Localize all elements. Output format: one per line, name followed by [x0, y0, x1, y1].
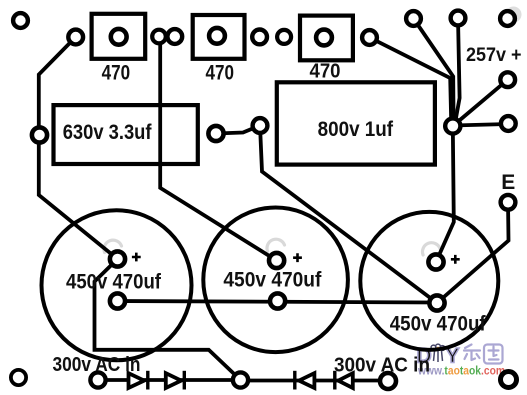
plus sign C2: [293, 253, 302, 262]
svg-text:450v 470uf: 450v 470uf: [390, 313, 487, 336]
wire node PC to C3 plus pad: [436, 126, 454, 262]
wire P16 to P17: [98, 378, 241, 382]
C3 plus pad: [428, 254, 443, 269]
C2 minus pad: [270, 293, 285, 308]
svg-text:257v +: 257v +: [466, 45, 522, 66]
pad P9: [277, 30, 291, 44]
pad P3: [152, 30, 166, 44]
svg-text:800v 1uf: 800v 1uf: [318, 118, 394, 141]
svg-text:E: E: [501, 171, 515, 194]
pad P18: [380, 373, 396, 389]
wire P7 to C3 minus pad: [260, 126, 437, 304]
pad P4: [167, 29, 182, 44]
electrolytic capacitor C1 outline: [42, 210, 192, 360]
svg-text:470: 470: [102, 62, 131, 85]
C1 plus pad: [110, 251, 125, 266]
pad P16: [90, 372, 105, 387]
plus sign C3: [451, 255, 460, 264]
wire P10 to node PC: [370, 38, 452, 127]
pad P19: [501, 372, 517, 388]
pad P17: [233, 372, 248, 387]
wire P3 to C2 plus pad: [159, 37, 277, 261]
wire P6 to P7: [216, 126, 260, 134]
wire C1 plus pad to P17: [95, 259, 241, 380]
watermark DIY logo: [417, 344, 503, 367]
electrolytic capacitor C3 outline: [360, 212, 498, 350]
wire C1 minus pad to C3 minus pad: [118, 301, 438, 303]
pad P10: [362, 30, 377, 45]
node PC pad: [445, 118, 460, 133]
diode D4: [335, 371, 353, 390]
pad P15: [501, 116, 516, 131]
pad PE node E: [501, 195, 516, 210]
pad P5: [32, 127, 47, 142]
diode D2: [166, 371, 185, 390]
C1 minus pad: [110, 293, 125, 308]
pad P13: [500, 11, 515, 26]
pad P8: [252, 30, 267, 45]
svg-text:470: 470: [310, 61, 341, 83]
C2 plus pad: [269, 253, 284, 268]
wire P2 to C1 plus pad: [39, 37, 118, 259]
wire PE to C3 minus pad: [437, 202, 509, 303]
pad P20: [11, 370, 26, 385]
resistor R1 body: [92, 14, 146, 59]
capacitor 800v 1uf body: [277, 82, 435, 164]
pad P12: [451, 11, 466, 26]
svg-text:630v 3.3uf: 630v 3.3uf: [63, 121, 153, 144]
wire P17 to P18: [241, 379, 389, 383]
svg-text:www.taotaok.com: www.taotaok.com: [417, 364, 505, 378]
pad P6: [208, 126, 223, 141]
svg-text:450v 470uf: 450v 470uf: [66, 271, 162, 294]
C3 minus pad: [429, 295, 444, 310]
svg-text:450v 470uf: 450v 470uf: [223, 269, 322, 292]
resistor R1 center hole: [111, 29, 127, 45]
pad P11: [406, 11, 421, 26]
svg-text:300v AC in: 300v AC in: [334, 355, 430, 377]
ghost halo at C3 plus pad: [422, 243, 440, 255]
electrolytic capacitor C2 outline: [203, 207, 348, 352]
diode D3: [295, 371, 315, 390]
svg-text:470: 470: [206, 62, 235, 85]
resistor R3 center hole: [316, 30, 332, 46]
pad P7: [253, 118, 268, 133]
resistor R3 body: [300, 16, 353, 61]
pad P2: [68, 30, 83, 45]
wire node PC to P15: [453, 124, 509, 126]
wire node PC to P14: [453, 80, 508, 126]
ghost halo at C2 plus pad: [267, 239, 285, 251]
pad P1: [13, 13, 28, 28]
ghost halo at C1 plus pad: [104, 240, 122, 252]
resistor R2 body: [193, 15, 245, 59]
svg-text:300v AC in: 300v AC in: [53, 354, 141, 376]
diode D1: [129, 371, 148, 390]
wire P12 to node PC: [455, 18, 460, 125]
capacitor 630v 3.3uf body: [54, 105, 198, 164]
resistor R2 center hole: [209, 28, 225, 44]
plus sign C1: [132, 253, 141, 262]
wire P11 to node PC: [414, 19, 454, 127]
pad P14: [500, 72, 515, 87]
ghost halo at pad P13: [506, 7, 522, 23]
